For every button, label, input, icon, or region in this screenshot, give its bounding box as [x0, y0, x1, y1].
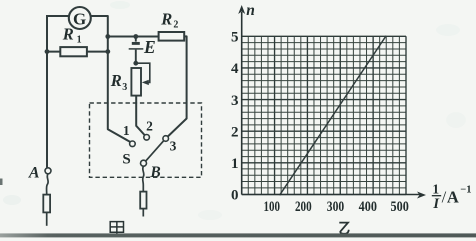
svg-text:4: 4 [231, 61, 239, 77]
wire: below A squiggle [47, 174, 49, 195]
svg-text:0: 0 [231, 188, 239, 204]
svg-text:3: 3 [231, 93, 239, 109]
wire: galvanometer loop top-left [47, 16, 69, 168]
svg-text:200: 200 [295, 199, 312, 215]
battery E short plate [132, 42, 140, 45]
wire: top horizontal to R2 [108, 36, 159, 38]
svg-text:−1: −1 [460, 184, 471, 195]
svg-text:R: R [160, 10, 172, 29]
svg-text:5: 5 [231, 30, 239, 46]
plotted line [280, 36, 387, 195]
terminal post A [43, 195, 50, 213]
left edge scan artifact [0, 179, 3, 186]
wire: right branch from R2 down to contact 3 [168, 36, 187, 136]
svg-text:A: A [28, 164, 40, 181]
node: junction dot on top horizontal wire [105, 34, 110, 39]
graph major grid [242, 36, 406, 194]
x axis [242, 194, 421, 196]
svg-text:400: 400 [359, 199, 377, 215]
svg-text:2: 2 [146, 118, 153, 133]
svg-text:1: 1 [432, 181, 439, 196]
y tick labels [231, 30, 239, 204]
battery E lead bottom [135, 50, 137, 64]
dashed selection box [90, 103, 202, 177]
x tick labels [263, 199, 408, 215]
wire: below A post [46, 212, 48, 225]
battery E long plate [129, 48, 144, 50]
galvanometer G [69, 7, 91, 29]
wire: galvanometer loop top-right down to contact 1 [90, 16, 130, 142]
svg-text:1: 1 [77, 35, 82, 46]
terminal post B [140, 192, 146, 209]
battery E lead top [135, 37, 137, 42]
svg-text:E: E [143, 37, 156, 57]
wire: R3 down to contact 2 [136, 96, 145, 136]
rheostat R3 [131, 68, 141, 96]
svg-text:100: 100 [263, 199, 280, 215]
svg-text:1: 1 [231, 156, 239, 172]
resistor R1 [60, 47, 87, 56]
resistor R2 [159, 32, 185, 41]
switch blade S to contact 3 [146, 141, 164, 161]
node: junction dot left of R1 [45, 49, 50, 54]
node: junction dot above R3 [133, 61, 138, 66]
svg-text:S: S [122, 151, 130, 167]
svg-text:n: n [246, 2, 255, 19]
contact 1 [130, 141, 136, 147]
svg-text:/: / [442, 187, 447, 206]
svg-text:R: R [110, 71, 122, 90]
wire: R1 leads [47, 51, 108, 53]
node: junction dot right of R1 [105, 49, 110, 54]
svg-text:2: 2 [173, 20, 178, 31]
wire: rheostat wiper loop [136, 63, 150, 82]
svg-text:2: 2 [231, 124, 239, 140]
svg-text:R: R [62, 25, 74, 44]
svg-text:B: B [149, 164, 160, 181]
wire: below B post [142, 209, 144, 217]
svg-text:3: 3 [170, 139, 177, 154]
node: junction dot battery top [133, 34, 138, 39]
wire: pole down to terminal B post [143, 166, 144, 191]
contact 2 [144, 135, 150, 141]
rheostat wiper arrowhead [142, 80, 149, 85]
label yi (graph caption) [339, 223, 349, 234]
svg-text:A: A [447, 188, 459, 207]
graph minor grid [242, 36, 406, 194]
label jia (circuit caption) [110, 222, 123, 237]
terminal A circle [45, 168, 51, 174]
svg-text:300: 300 [327, 199, 344, 215]
switch S pole circle [141, 160, 147, 166]
y axis n [241, 12, 243, 195]
svg-text:3: 3 [122, 82, 127, 93]
contact 3 [163, 136, 169, 142]
svg-text:1: 1 [123, 123, 130, 138]
svg-text:G: G [73, 9, 86, 28]
svg-text:500: 500 [391, 199, 409, 215]
